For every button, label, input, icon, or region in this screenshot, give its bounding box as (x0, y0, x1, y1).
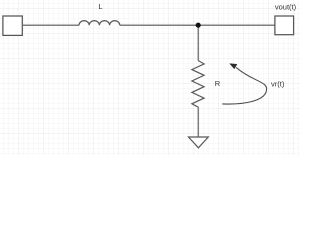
node junction dot (196, 23, 201, 28)
inductor L (79, 21, 120, 26)
wire from resistor to ground (197, 107, 199, 137)
arrowhead of vr(t) arrow (230, 64, 237, 69)
resistor R (192, 61, 204, 108)
ground (189, 137, 209, 148)
svg-text:L: L (98, 2, 102, 11)
svg-text:vout(t): vout(t) (275, 3, 297, 12)
wire from input box to inductor L (23, 24, 79, 26)
terminal box vout(t) (right output port) (275, 16, 294, 35)
wire from node to resistor R (197, 25, 199, 61)
wire from inductor to vout box (120, 24, 275, 26)
terminal box (left input port) (3, 16, 22, 35)
voltage reference arrow vr(t) (222, 67, 266, 104)
svg-text:R: R (215, 79, 221, 88)
svg-text:vr(t): vr(t) (271, 80, 285, 89)
